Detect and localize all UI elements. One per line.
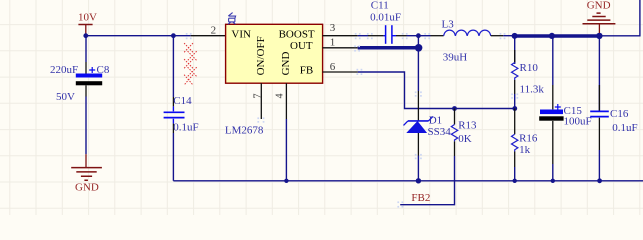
wire to top right corner	[601, 0, 640, 36]
svg-text:39uH: 39uH	[443, 52, 468, 64]
wire ground rail	[173, 180, 643, 182]
capacitor C16	[590, 36, 637, 181]
capacitor C15	[539, 36, 591, 181]
power port GND top right	[583, 0, 616, 33]
pin 6 stub	[323, 71, 358, 73]
pin 2 stub	[191, 35, 226, 37]
svg-text:4: 4	[274, 94, 285, 99]
svg-text:GND: GND	[587, 0, 611, 12]
svg-text:10V: 10V	[78, 12, 97, 24]
node R10 bottom	[512, 106, 517, 111]
svg-text:7: 7	[252, 94, 263, 99]
node junction 10V	[83, 33, 88, 38]
label 负 (negative) drawn as strokes	[228, 13, 236, 25]
diode D1 pin top	[417, 91, 419, 121]
node R10 top	[512, 33, 518, 39]
wire node to L3	[418, 35, 430, 37]
svg-text:2: 2	[211, 24, 217, 36]
wire switch node vertical	[417, 36, 419, 91]
resistor R13	[451, 109, 477, 157]
svg-text:100uF: 100uF	[564, 115, 592, 127]
wire C14 branch down	[172, 36, 174, 97]
node switch junction top	[416, 33, 421, 38]
svg-text:6: 6	[330, 61, 336, 73]
svg-text:FB: FB	[300, 64, 313, 76]
svg-text:GND: GND	[75, 182, 99, 194]
svg-text:0.1uF: 0.1uF	[173, 122, 198, 134]
svg-text:0.01uF: 0.01uF	[370, 12, 401, 24]
node R13 top	[452, 106, 457, 111]
wire R13 to FB2	[400, 156, 454, 205]
wire 10V horizontal to pin 2	[86, 35, 191, 37]
svg-text:50V: 50V	[56, 91, 75, 103]
node C15 on rail	[551, 179, 555, 183]
pin 7 stub	[260, 83, 262, 119]
node junction C14 branch	[171, 33, 176, 38]
svg-text:SS34: SS34	[428, 126, 452, 138]
resistor R16	[512, 109, 538, 181]
node GND output	[596, 33, 602, 39]
svg-text:R13: R13	[458, 119, 477, 131]
wire pin4 to rail	[285, 119, 287, 181]
ground GND left	[71, 154, 102, 193]
diode D1	[404, 115, 452, 138]
pin 4 stub	[285, 83, 287, 119]
capacitor C8	[50, 62, 110, 103]
wire C14 to rail	[172, 133, 174, 181]
svg-text:FB2: FB2	[411, 192, 430, 204]
svg-text:C14: C14	[173, 95, 192, 107]
resistor R10	[512, 36, 545, 109]
svg-text:C16: C16	[610, 108, 629, 120]
svg-text:11.3k: 11.3k	[520, 84, 545, 96]
pin 3 stub	[323, 35, 358, 37]
svg-text:ON/OFF: ON/OFF	[255, 36, 267, 75]
svg-text:0.1uF: 0.1uF	[612, 122, 637, 134]
svg-text:1k: 1k	[519, 144, 531, 156]
wire C8 branch down	[85, 36, 87, 62]
pin 1 stub	[323, 47, 358, 49]
node C16 on rail	[597, 178, 602, 183]
wire thick output rail	[515, 34, 601, 38]
svg-text:220uF: 220uF	[50, 64, 78, 76]
no-ERC red crosses	[184, 43, 197, 85]
node C15 top	[549, 33, 555, 39]
wire D1 to rail	[417, 156, 419, 181]
wire C8 to GND	[85, 97, 87, 155]
svg-text:R10: R10	[520, 62, 539, 74]
svg-text:L3: L3	[442, 18, 455, 30]
capacitor C14	[164, 95, 199, 134]
svg-text:C11: C11	[371, 0, 389, 12]
svg-text:BOOST: BOOST	[279, 29, 315, 41]
svg-text:OUT: OUT	[290, 40, 313, 52]
diode D1 pin bottom	[417, 133, 419, 156]
wire pin3 to C11	[358, 35, 368, 37]
svg-text:3: 3	[330, 22, 336, 34]
svg-text:0K: 0K	[458, 133, 472, 145]
capacitor C11	[368, 0, 407, 44]
svg-text:1: 1	[330, 36, 336, 48]
node GND pin4 on rail	[284, 179, 288, 183]
inductor L3	[431, 18, 504, 63]
wire C11 to node	[407, 35, 419, 37]
node D1 anode on rail	[416, 178, 421, 183]
svg-text:C8: C8	[97, 64, 110, 76]
node OUT junction	[415, 44, 423, 52]
svg-text:D1: D1	[429, 115, 442, 127]
wire FB from pin6	[358, 72, 515, 109]
node R16 on rail	[513, 179, 517, 183]
svg-text:LM2678: LM2678	[225, 124, 264, 136]
svg-text:VIN: VIN	[231, 29, 251, 41]
svg-text:R16: R16	[519, 133, 538, 145]
connection hot-spot markers	[186, 33, 518, 208]
wire L3 to thick rail	[503, 35, 514, 37]
svg-text:GND: GND	[280, 52, 292, 76]
power port 10V	[78, 12, 97, 35]
op-amp U? regulator LM2678 body	[226, 24, 323, 83]
wire thick OUT	[358, 46, 420, 50]
